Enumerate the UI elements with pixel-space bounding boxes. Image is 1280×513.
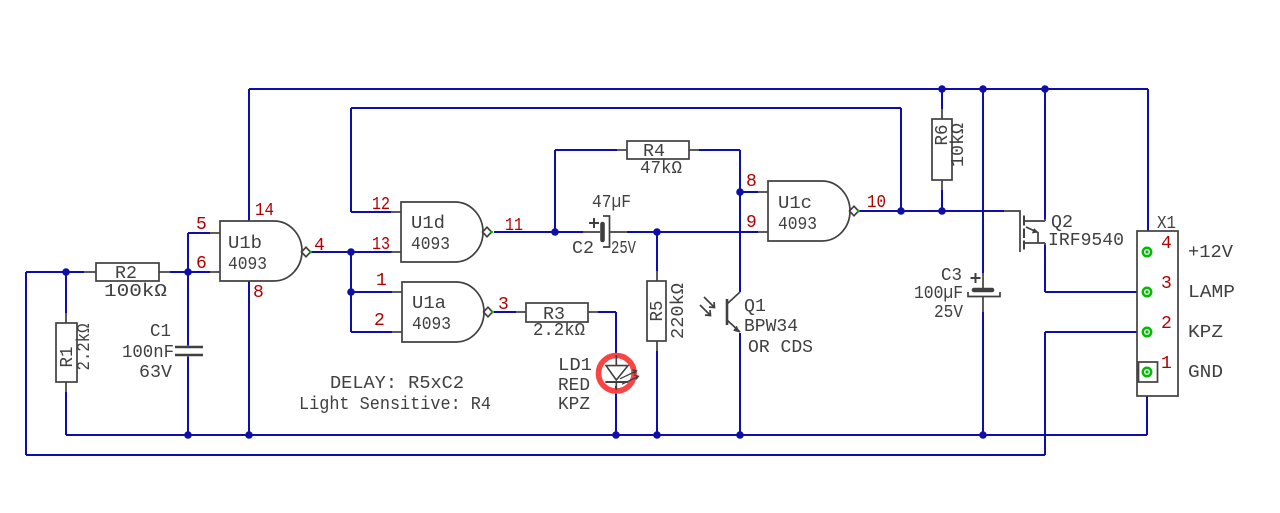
resistor R6: [932, 109, 952, 190]
junction at (740,435): [736, 431, 744, 439]
svg-text:12: 12: [372, 195, 390, 215]
svg-text:220kΩ: 220kΩ: [669, 283, 689, 339]
svg-text:4: 4: [1161, 234, 1172, 254]
svg-text:OR CDS: OR CDS: [748, 338, 813, 358]
junction at (616,435): [612, 431, 620, 439]
svg-text:100µF: 100µF: [914, 284, 963, 304]
resistor R3: [516, 303, 598, 322]
svg-text:63V: 63V: [139, 363, 172, 383]
svg-text:U1d: U1d: [411, 214, 445, 234]
svg-text:2.2kΩ: 2.2kΩ: [75, 323, 95, 370]
wire: +12V top rail: [249, 88, 1148, 90]
wire: R6 bottom lead: [941, 190, 943, 211]
svg-text:Q2: Q2: [1051, 213, 1073, 233]
resistor R5: [647, 271, 666, 351]
svg-text:+12V: +12V: [1188, 243, 1233, 263]
svg-text:100nF: 100nF: [122, 343, 174, 363]
svg-text:4093: 4093: [228, 255, 267, 275]
svg-text:4: 4: [314, 236, 325, 256]
transistor Q1 BPW34 phototransistor: [700, 292, 740, 333]
wire: R3 right lead: [598, 311, 616, 313]
svg-text:R5: R5: [648, 301, 668, 322]
svg-text:C3: C3: [941, 266, 962, 286]
svg-text:U1c: U1c: [778, 194, 812, 214]
wire: U1d output to C2: [494, 231, 583, 233]
svg-text:LD1: LD1: [558, 356, 592, 376]
connector X1 pin 4: [1143, 248, 1151, 256]
wire: node vertical to U1a inputs: [350, 252, 352, 332]
svg-text:25V: 25V: [934, 303, 963, 323]
wire: R5 bottom lead to ground rail: [656, 351, 658, 435]
wire: R4 branch vertical: [554, 150, 556, 232]
wire: +12V drop to X1 pin 4: [1147, 89, 1149, 250]
junction at (657,232): [653, 228, 661, 236]
wire: left vertical KPZ feed: [25, 272, 27, 455]
svg-text:2: 2: [1161, 314, 1172, 334]
op-amp gate U1c 4093 NAND body: [758, 181, 860, 241]
svg-text:R2: R2: [115, 264, 137, 284]
junction at (942,89): [938, 85, 946, 93]
svg-text:3: 3: [1161, 274, 1172, 294]
wire: R2 to U1b pin6: [170, 271, 210, 273]
wire: U1c pin8 node to Q1 collector: [739, 192, 741, 292]
wire: LED cathode to ground rail: [615, 386, 617, 435]
op-amp gate U1d 4093 NAND body: [391, 202, 493, 262]
resistor R4: [617, 141, 699, 159]
wire: feedback rail y108: [351, 107, 901, 109]
svg-text:KPZ: KPZ: [1188, 323, 1223, 343]
svg-text:GND: GND: [1188, 363, 1223, 383]
junction at (983,435): [979, 431, 987, 439]
wire: C3 bottom lead to ground rail: [982, 312, 984, 435]
junction at (657,435): [653, 431, 661, 439]
wire: LAMP to X1 pin 3: [1045, 291, 1143, 293]
transistor Q2 IRF9540 p-mosfet: [1004, 211, 1045, 252]
wire: U1b pin5 horizontal: [188, 232, 210, 234]
svg-text:C1: C1: [150, 322, 171, 342]
connector X1 pin 3: [1143, 288, 1151, 296]
wire: U1b output to U1d pin13: [311, 251, 392, 253]
svg-text:25V: 25V: [611, 239, 636, 259]
svg-text:4093: 4093: [412, 315, 451, 335]
junction at (983,89): [979, 85, 987, 93]
wire: KPZ riser: [1044, 332, 1046, 455]
junction at (249,435): [245, 431, 253, 439]
wire: U1d pin12 horizontal: [351, 211, 391, 213]
wire: Q1 emitter to ground rail: [739, 333, 741, 435]
capacitor C2 polarized: [583, 216, 627, 247]
svg-text:LAMP: LAMP: [1188, 283, 1235, 303]
capacitor C3 polarized: [968, 273, 1000, 312]
junction at (351,252): [347, 248, 355, 256]
svg-text:2.2kΩ: 2.2kΩ: [533, 321, 585, 341]
svg-text:47kΩ: 47kΩ: [640, 159, 682, 179]
wire: U1a pin1 horizontal: [351, 291, 392, 293]
junction at (740,192): [736, 188, 744, 196]
op-amp gate U1a 4093 NAND body: [392, 282, 494, 342]
capacitor C1: [175, 345, 203, 357]
wire: R1 top lead from node: [65, 272, 67, 313]
svg-text:U1b: U1b: [228, 234, 262, 254]
junction at (66,272): [62, 268, 70, 276]
svg-text:1: 1: [376, 271, 387, 291]
wire: C1 bottom to ground rail: [187, 357, 189, 435]
svg-text:2: 2: [374, 311, 385, 331]
wire: U1b pin8 vertical to ground rail: [248, 281, 250, 435]
svg-text:8: 8: [253, 283, 264, 303]
wire: R4 right lead: [699, 149, 740, 151]
junction at (1045,89): [1041, 85, 1049, 93]
wire: X1 GND pin down: [1146, 376, 1148, 435]
LED LD1 with red highlight ring: [599, 355, 639, 391]
wire: feedback drop to U1c output net: [900, 108, 902, 211]
svg-text:100kΩ: 100kΩ: [104, 282, 167, 302]
svg-text:47µF: 47µF: [592, 193, 631, 213]
svg-text:BPW34: BPW34: [744, 317, 798, 337]
wire: C2 to U1c pin9: [627, 231, 758, 233]
wire: R5 top lead: [656, 232, 658, 271]
wire: R4 left lead: [555, 149, 617, 151]
svg-text:IRF9540: IRF9540: [1048, 231, 1124, 251]
wire: bottom KPZ line: [26, 454, 1045, 456]
svg-text:1: 1: [1161, 354, 1172, 374]
wire: C1 node vertical: [187, 233, 189, 345]
wire: U1c output to Q2 gate: [859, 210, 1004, 212]
svg-text:DELAY: R5xC2: DELAY: R5xC2: [330, 374, 464, 394]
svg-text:C2: C2: [572, 239, 594, 259]
wire: U1d pin12 riser: [350, 108, 352, 212]
junction at (942,211): [938, 207, 946, 215]
svg-text:8: 8: [746, 172, 757, 192]
connector X1 pin 1: [1143, 368, 1151, 376]
wire: KPZ to X1 pin 2: [1045, 331, 1143, 333]
svg-text:9: 9: [746, 213, 757, 233]
svg-text:6: 6: [196, 254, 207, 274]
wire: left feed horizontal to R2: [26, 271, 84, 273]
wire: U1a pin2 horizontal: [351, 331, 392, 333]
svg-text:Q1: Q1: [744, 297, 766, 317]
svg-text:RED: RED: [558, 376, 590, 396]
wire: U1a output to R3: [494, 311, 516, 313]
wire: ground rail: [66, 434, 1147, 436]
junction at (351,292): [347, 288, 355, 296]
svg-text:3: 3: [498, 295, 509, 315]
svg-text:KPZ: KPZ: [558, 395, 590, 415]
connector X1 body: [1137, 231, 1178, 396]
connector X1 pin 2: [1143, 328, 1151, 336]
svg-text:4093: 4093: [411, 235, 450, 255]
wire: R1 bottom lead to ground rail: [65, 392, 67, 435]
op-amp gate U1b 4093 NAND body: [210, 221, 312, 281]
resistor R1: [56, 313, 77, 392]
svg-text:U1a: U1a: [412, 294, 446, 314]
junction at (555,232): [551, 228, 559, 236]
svg-text:13: 13: [372, 235, 390, 255]
junction at (188,435): [184, 431, 192, 439]
svg-text:10: 10: [867, 193, 886, 213]
svg-text:Light Sensitive: R4: Light Sensitive: R4: [299, 395, 491, 415]
wire: R4 drop to U1c pin8 node: [739, 150, 741, 192]
svg-text:5: 5: [196, 215, 207, 235]
svg-text:14: 14: [255, 201, 274, 221]
svg-text:X1: X1: [1157, 214, 1176, 234]
svg-text:4093: 4093: [778, 215, 817, 235]
wire: U1b pin14 vertical: [248, 89, 250, 221]
wire: Q2 source from +12V rail: [1044, 89, 1046, 219]
svg-text:11: 11: [505, 216, 523, 236]
wire: U1c pin8 horizontal: [740, 191, 758, 193]
wire: C3 top lead: [982, 89, 984, 273]
wire: Q2 drain down: [1044, 245, 1046, 292]
wire: R6 top lead: [941, 89, 943, 109]
junction at (188,272): [184, 268, 192, 276]
junction at (901,211): [897, 207, 905, 215]
svg-text:10kΩ: 10kΩ: [949, 123, 969, 167]
resistor R2: [84, 263, 170, 281]
wire: LED anode drop: [615, 312, 617, 358]
